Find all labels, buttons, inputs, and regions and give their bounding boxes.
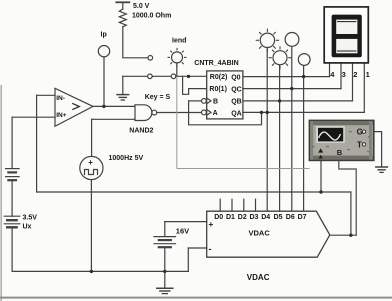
svg-text:CNTR_4ABIN: CNTR_4ABIN <box>194 60 238 67</box>
svg-text:QB: QB <box>231 99 242 106</box>
svg-text:D4: D4 <box>261 214 270 221</box>
svg-text:Key = S: Key = S <box>145 94 171 101</box>
svg-text:D1: D1 <box>226 214 235 221</box>
svg-text:2: 2 <box>353 70 357 79</box>
svg-text:D0: D0 <box>214 214 223 221</box>
svg-text:1000.0 Ohm: 1000.0 Ohm <box>132 13 171 20</box>
svg-text:+: + <box>208 219 213 229</box>
svg-text:Ux: Ux <box>23 223 32 230</box>
svg-text:D5: D5 <box>274 214 283 221</box>
svg-text:A: A <box>213 110 218 117</box>
svg-text:Iend: Iend <box>172 38 186 45</box>
svg-text:D2: D2 <box>238 214 247 221</box>
svg-text:3.5V: 3.5V <box>23 214 38 221</box>
svg-text:Q0: Q0 <box>231 75 240 82</box>
svg-text:IN-: IN- <box>56 95 65 102</box>
svg-text:B: B <box>337 148 343 157</box>
svg-text:NAND2: NAND2 <box>129 128 153 135</box>
svg-text:G: G <box>357 127 363 136</box>
svg-text:D7: D7 <box>298 214 307 221</box>
svg-text:-: - <box>209 244 212 254</box>
svg-text:T: T <box>357 140 362 149</box>
svg-text:R0(2): R0(2) <box>210 74 228 81</box>
svg-text:5.0 V: 5.0 V <box>133 3 150 10</box>
svg-text:QA: QA <box>231 110 242 117</box>
svg-text:D3: D3 <box>250 214 259 221</box>
svg-text:VDAC: VDAC <box>247 273 270 282</box>
svg-text:QC: QC <box>231 87 242 94</box>
svg-text:3: 3 <box>342 70 346 79</box>
svg-text:D6: D6 <box>286 214 295 221</box>
svg-text:1000Hz 5V: 1000Hz 5V <box>109 155 144 162</box>
svg-text:1: 1 <box>366 70 370 79</box>
svg-text:+: + <box>88 158 93 167</box>
svg-text:R0(1): R0(1) <box>209 86 227 93</box>
svg-text:Ip: Ip <box>101 31 107 38</box>
svg-text:B: B <box>213 98 218 105</box>
svg-text:VDAC: VDAC <box>249 229 271 238</box>
svg-text:16V: 16V <box>176 226 189 235</box>
svg-text:IN+: IN+ <box>56 112 67 119</box>
